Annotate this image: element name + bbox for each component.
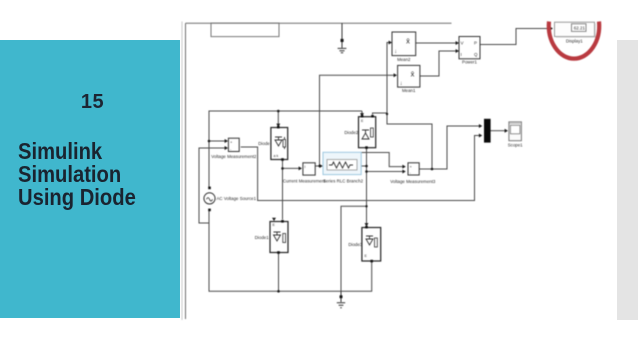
svg-text:x̄: x̄ [406, 37, 410, 46]
svg-text:↓: ↓ [400, 81, 403, 87]
svg-text:V: V [461, 41, 464, 46]
svg-text:x̄: x̄ [411, 70, 415, 79]
svg-text:Diode2: Diode2 [344, 130, 358, 135]
svg-text:Display1: Display1 [566, 39, 583, 44]
svg-text:a k: a k [274, 154, 279, 158]
svg-text:Series RLC Branch2: Series RLC Branch2 [323, 178, 364, 183]
svg-text:Diode3: Diode3 [348, 242, 362, 247]
svg-text:62.21: 62.21 [574, 26, 586, 31]
svg-text:Current Measurement: Current Measurement [283, 178, 326, 183]
svg-text:Power1: Power1 [462, 59, 477, 64]
svg-text:Voltage Measurement2: Voltage Measurement2 [211, 154, 257, 159]
svg-text:Scope1: Scope1 [508, 143, 523, 148]
svg-text:Mean1: Mean1 [402, 88, 416, 93]
svg-text:Diode: Diode [258, 141, 270, 146]
svg-text:Q: Q [474, 52, 478, 57]
svg-text:i: i [305, 164, 306, 169]
svg-text:Voltage Measurement3: Voltage Measurement3 [390, 179, 436, 184]
svg-text:Mean2: Mean2 [397, 57, 411, 62]
svg-text:↓: ↓ [394, 49, 397, 55]
svg-text:AC Voltage Source1: AC Voltage Source1 [217, 196, 257, 201]
svg-text:I: I [461, 52, 462, 57]
svg-text:P: P [474, 41, 477, 46]
svg-text:Diode1: Diode1 [255, 235, 269, 240]
